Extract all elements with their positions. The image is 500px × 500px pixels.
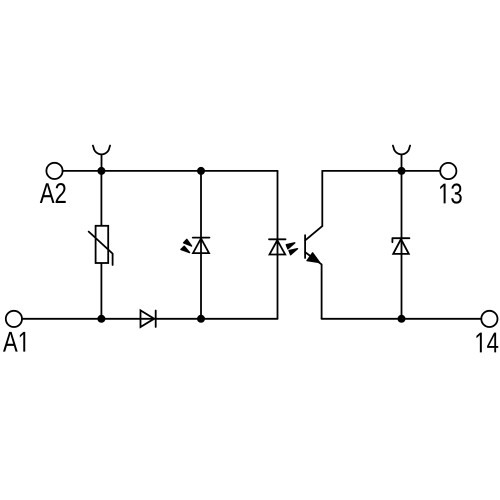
junction dot LED1 top [197,167,205,175]
phototransistor Q1 base bar [304,235,306,258]
LED1 indicator [193,238,210,254]
terminal 13 [440,163,456,179]
varistor RU [89,226,113,265]
label 13 [440,183,462,203]
terminal A2 [46,163,62,179]
LED1 arrow 1 [184,239,192,246]
clip symbol left [93,146,110,167]
junction dot top-left [97,167,105,175]
diode D1 series [141,310,156,327]
wire bottom output rail [322,318,482,320]
phototransistor Q1 emitter arrow [307,253,320,263]
clip symbol right [393,146,410,167]
wire top output rail [322,170,440,172]
phototransistor Q1 emitter [305,252,322,319]
LED1 arrow 2 [181,246,190,252]
LED2 optocoupler emitter [269,239,286,254]
junction dot bottom-right [398,315,406,323]
junction dot bottom-left [97,315,105,323]
label A1 [3,332,25,352]
wire LED1 branch [200,171,202,319]
terminal A1 [6,311,22,327]
wire optocoupler LED branch [277,171,279,319]
zener diode D2 [392,238,409,254]
junction dot LED1 bottom [197,315,205,323]
terminal 14 [481,311,497,327]
label A2 [40,183,66,203]
wire bottom input rail [22,318,278,320]
wire varistor branch [100,171,102,319]
wire zener branch [401,171,403,319]
label 14 [476,333,498,353]
junction dot top-right [398,167,406,175]
LED2 arrow 2 [289,249,298,255]
wire top input rail [63,170,278,172]
LED2 arrow 1 [286,243,295,249]
phototransistor Q1 collector [305,171,322,241]
